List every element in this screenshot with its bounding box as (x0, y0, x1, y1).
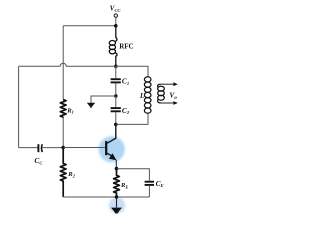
ground (bottom) (111, 208, 122, 214)
wire: emitter to CE branch (117, 169, 150, 181)
svg-text:CC: CC (34, 156, 43, 165)
svg-text:CE: CE (156, 179, 164, 188)
node: tank top junction below RFC (114, 65, 118, 69)
transistor Q1 (106, 124, 116, 168)
svg-text:VCC: VCC (110, 5, 122, 13)
terminal VCC circle (114, 14, 117, 17)
wire: C2 down to tank bottom junction (115, 112, 117, 124)
capacitor CC (19, 147, 38, 149)
svg-text:RFC: RFC (119, 42, 133, 50)
resistor R1 (60, 100, 66, 118)
node: C1-C2 midpoint (114, 94, 118, 98)
wire: top junction left to R1 branch (63, 25, 116, 27)
inductor secondary winding (158, 84, 165, 103)
wire: R1 to base node (62, 117, 64, 148)
wire: C1 branch from tank top (115, 66, 117, 78)
collector lead (106, 124, 115, 143)
svg-text:L: L (139, 92, 144, 100)
emitter lead (106, 153, 113, 157)
node: base node (61, 146, 65, 150)
capacitor C1 (111, 79, 121, 82)
emitter stem (115, 160, 117, 169)
emitter arrowhead (109, 153, 117, 160)
wire: tank top right to L (116, 66, 148, 76)
svg-text:C2: C2 (122, 106, 130, 115)
svg-text:RE: RE (120, 182, 128, 189)
wire: C1 to mid junction (115, 84, 117, 97)
svg-text:R2: R2 (67, 171, 75, 178)
resistor R2 (60, 148, 66, 198)
ground (tank midpoint) (87, 103, 95, 109)
wire: output bottom lead (161, 102, 174, 104)
wire: bottom rail (63, 196, 149, 198)
transistor highlight blob (99, 136, 125, 162)
wire: output top lead (161, 83, 174, 85)
wire: left rail down (18, 66, 20, 147)
wire: VCC stem down to top junction (115, 17, 117, 26)
capacitor C2 (111, 108, 121, 111)
output bottom arrowhead (173, 101, 177, 105)
wire: tank bottom right to L bottom (116, 113, 148, 124)
capacitor CE (145, 182, 154, 185)
wire: mid junction to C2 (115, 96, 117, 107)
wire: base node to transistor base (63, 147, 105, 149)
wire: CC to base node (43, 147, 64, 149)
node: bottom rail junction (115, 195, 119, 199)
wire: CE bottom to rail (148, 186, 150, 197)
output top arrowhead (173, 82, 177, 86)
inductor RFC (109, 26, 117, 67)
wire: R1 branch vertical upper (62, 26, 64, 100)
resistor RE (114, 169, 120, 197)
node: top junction (114, 24, 118, 28)
base bar (105, 141, 107, 155)
wire: ground tap left (91, 96, 116, 103)
svg-text:R1: R1 (66, 107, 74, 114)
node: emitter junction (115, 167, 119, 171)
wire: feedback line y=66 with hop over R1 branch (19, 63, 116, 66)
wire: ground stem (116, 197, 118, 207)
svg-text:C1: C1 (122, 76, 129, 85)
svg-text:Vo: Vo (169, 90, 177, 101)
ground highlight blob (109, 197, 125, 213)
node: tank bottom junction (114, 123, 118, 127)
inductor L (primary) (144, 77, 151, 113)
